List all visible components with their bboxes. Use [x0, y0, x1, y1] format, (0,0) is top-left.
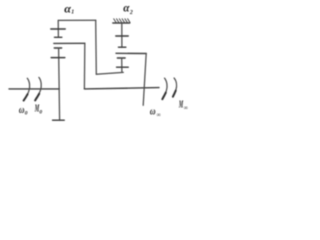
left shaft vertical lower [59, 48, 60, 120]
bracket B vertical [83, 43, 85, 89]
svg-text:1: 1 [71, 10, 74, 16]
svg-text:∞: ∞ [157, 113, 162, 119]
svg-text:ω: ω [150, 106, 156, 118]
rotation arrow omega-inf arc [163, 78, 167, 97]
svg-text:2: 2 [129, 10, 133, 16]
rotation arrow M0 arc [36, 77, 42, 98]
carrier bracket A inner horizontal [96, 72, 123, 74]
gear wheel 2 left: crossbar [51, 57, 65, 59]
rotation arrow omega0 arc [24, 78, 30, 99]
gear wheel 1 right: end tick [119, 46, 126, 48]
svg-text:0: 0 [25, 111, 28, 117]
gear wheel 1 left: crossbar [51, 28, 65, 30]
svg-text:0: 0 [39, 109, 42, 115]
svg-text:α: α [123, 1, 130, 15]
input shaft [9, 88, 59, 90]
arrowhead M-inf [173, 91, 176, 97]
arrowhead M0 [35, 94, 39, 101]
arrowhead omega-inf [162, 93, 166, 100]
gear wheel 2 right: crossbar [117, 66, 129, 68]
carrier bracket A right vertical [95, 20, 98, 74]
bracket D horizontal [116, 52, 146, 54]
bracket B bottom / output shaft line [84, 88, 159, 89]
right vertical C to output [143, 54, 146, 106]
fixed support bar [113, 22, 130, 24]
bracket B top horizontal [54, 42, 85, 44]
right shaft vertical lower segment [121, 58, 123, 72]
gear wheel 1 left: vertical segment [57, 20, 59, 37]
gear wheel 2 left: top tick [54, 47, 61, 49]
fixed support hatching [114, 19, 130, 23]
arrowhead omega0 [24, 94, 28, 100]
carrier bracket A top horizontal [58, 19, 95, 21]
svg-text:ω: ω [19, 104, 25, 116]
gear wheel 2 right: top tick [117, 57, 125, 59]
rotation arrow M-inf arc [174, 78, 177, 95]
gear wheel 1 right: vertical segment [121, 23, 123, 47]
left shaft T-foot [53, 119, 65, 121]
svg-text:∞: ∞ [184, 105, 189, 111]
gear wheel 1 left: end tick [55, 36, 62, 38]
gear wheel 1 right: crossbar [116, 35, 128, 37]
